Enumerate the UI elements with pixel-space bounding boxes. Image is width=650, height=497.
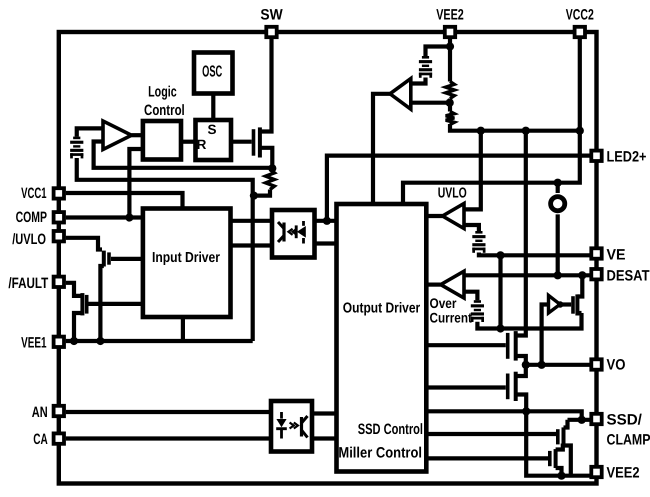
wire opto2 to output driver (bottom) bbox=[312, 436, 337, 440]
svg-text:Miller Control: Miller Control bbox=[338, 445, 422, 462]
wire VCC2 rail down bbox=[403, 39, 580, 204]
opto-coupler OC2 internals bbox=[276, 412, 307, 439]
svg-text:VCC1: VCC1 bbox=[21, 185, 46, 202]
svg-text:LED2+: LED2+ bbox=[607, 149, 647, 166]
wire Q2 gate lead bbox=[88, 302, 142, 306]
wire M3 source down bbox=[564, 446, 571, 476]
pin /UVLO bbox=[54, 231, 64, 241]
transistor M1 (pull-up) bbox=[508, 331, 516, 361]
wire VEE1 rail bbox=[66, 339, 253, 343]
resistor R2 upper divider bbox=[446, 82, 455, 99]
transistor M4 (Miller clamp) bbox=[550, 449, 556, 468]
wire M5 source step bbox=[577, 311, 581, 315]
wire U6 output to Logic Control bbox=[132, 133, 143, 137]
svg-text:SSD Control: SSD Control bbox=[358, 421, 423, 438]
wire M1 gate lead bbox=[426, 343, 506, 347]
wire M3 gate lead (SSD control) bbox=[426, 432, 556, 436]
wire CA to opto2 bbox=[66, 436, 271, 440]
svg-text:COMP: COMP bbox=[16, 209, 47, 226]
wire VCC1 to Input Driver bbox=[66, 193, 183, 209]
pin LED2+ bbox=[591, 151, 601, 161]
wire M2 drain from VO node bbox=[516, 365, 526, 376]
block OSC bbox=[194, 53, 233, 94]
resistor R3 lower divider bbox=[446, 112, 455, 125]
wire Z3 bottom to VE line bbox=[479, 253, 590, 256]
pin SW bbox=[266, 27, 276, 37]
wire UVLO sense from VCC2 line bbox=[464, 131, 481, 210]
pin CA bbox=[54, 433, 64, 443]
buffer U5 (DESAT clamp driver) bbox=[549, 295, 561, 313]
transistor Q1 (/UVLO open drain) bbox=[104, 251, 109, 267]
wire Z4 bottom / clamp ref line bbox=[477, 313, 581, 329]
wire over-current output to Output Driver bbox=[426, 283, 440, 287]
svg-text:SSD/: SSD/ bbox=[607, 412, 643, 429]
wire opto1 to output driver (bottom) bbox=[315, 241, 337, 245]
pin VEE1 bbox=[54, 337, 64, 347]
svg-text:Control: Control bbox=[144, 102, 185, 119]
comparator U3 UVLO (triangle pointing left) bbox=[443, 204, 465, 229]
svg-text:Output Driver: Output Driver bbox=[343, 300, 421, 316]
zener stack Z2 (VEE2 reference) bbox=[419, 56, 432, 78]
junction VCC2 line at UVLO branch bbox=[477, 127, 485, 135]
pin SSD/CLAMP bbox=[591, 414, 601, 424]
wire U6 lower input from switch sense bbox=[94, 142, 273, 168]
wire UVLO lower input to zener Z3 bbox=[464, 225, 479, 231]
svg-text:Input Driver: Input Driver bbox=[152, 250, 220, 266]
wire Q2 source down bbox=[74, 313, 82, 341]
IC package border bbox=[59, 32, 597, 484]
capacitor/zener C1 (soft start ref) bbox=[70, 137, 83, 159]
pin /FAULT bbox=[54, 277, 64, 287]
junction VE line bbox=[496, 251, 504, 259]
wire /FAULT pin to Q2 drain bbox=[66, 283, 81, 296]
wire input driver to opto1 cathode bbox=[231, 243, 273, 247]
wire COMP feedback up to Logic Control bbox=[129, 149, 143, 218]
transistor M6 (flyback switch) bbox=[254, 127, 260, 157]
junction VCC2 line at totem branch bbox=[522, 127, 530, 135]
svg-text:/FAULT: /FAULT bbox=[8, 275, 48, 292]
junction VO at totem mid bbox=[522, 361, 530, 369]
svg-text:OSC: OSC bbox=[202, 64, 222, 81]
wire opto1 to output driver (top) bbox=[315, 219, 337, 223]
wire Input Driver ground leg bbox=[181, 317, 185, 341]
wire VE branch down bbox=[498, 255, 502, 328]
wire Q1 source down bbox=[100, 266, 103, 341]
wire M5 drain to DESAT bbox=[577, 275, 582, 296]
transistor M5 (DESAT clamp) bbox=[573, 294, 577, 315]
transistor Q2 (/FAULT open drain) bbox=[82, 293, 86, 315]
junction COMP node bbox=[125, 213, 133, 221]
current source I1 (circle) bbox=[551, 197, 565, 211]
junction VEE1 at Q1 source bbox=[96, 337, 104, 345]
wire reg comparator output to Output Driver bbox=[373, 94, 390, 204]
comparator U6 (flyback PWM, triangle pointing right) bbox=[103, 121, 132, 150]
pin AN bbox=[54, 406, 64, 416]
wire Logic Control to latch R bbox=[181, 140, 196, 144]
wire SSD pin feed bbox=[568, 418, 590, 422]
zener stack Z3 (UVLO ref) bbox=[472, 231, 485, 253]
wire divider tap segment bbox=[448, 99, 452, 112]
junction switch sense node bbox=[268, 164, 276, 172]
zener stack Z4 (OC ref) bbox=[471, 300, 484, 322]
wire /UVLO pin to T1 drain bbox=[66, 238, 102, 250]
wire VEE2 to zener stack Z2 bbox=[426, 47, 451, 57]
svg-text:Logic: Logic bbox=[148, 84, 177, 101]
transistor M3 (SSD) bbox=[558, 427, 564, 446]
wire M4 source down bbox=[556, 468, 562, 476]
junction DESAT at clamp fet bbox=[578, 271, 586, 279]
wire SW pin to flyback MOSFET drain bbox=[260, 39, 272, 132]
svg-text:VCC2: VCC2 bbox=[566, 6, 594, 23]
wire buffer input from VO sense bbox=[542, 305, 549, 365]
svg-text:CLAMP: CLAMP bbox=[607, 432, 650, 449]
svg-text:VEE2: VEE2 bbox=[607, 465, 640, 482]
svg-text:VEE2: VEE2 bbox=[436, 6, 464, 23]
wire Z2 bottom to regulator comparator upper input bbox=[411, 78, 426, 84]
wire UVLO output to Output Driver bbox=[426, 214, 442, 218]
wire VO line bbox=[526, 363, 590, 367]
wire VEE2 pin down to divider bbox=[448, 39, 452, 82]
wire M2 gate lead bbox=[426, 385, 506, 389]
wire buffer output to M5 gate bbox=[560, 302, 571, 306]
wire clamp line down to VEE2 bbox=[526, 411, 589, 475]
transistor M2 (pull-down) bbox=[508, 372, 516, 401]
wire R1 top stub bbox=[270, 168, 272, 170]
junction VEE2 line at M4 source bbox=[557, 472, 565, 480]
wire M2 source down bbox=[516, 395, 527, 412]
svg-text:VEE1: VEE1 bbox=[21, 334, 46, 351]
junction current source feed bbox=[554, 179, 562, 187]
svg-text:DESAT: DESAT bbox=[607, 267, 650, 284]
pin VEE2 (bottom) bbox=[591, 467, 601, 477]
junction VCC2 line at VCC2 rail bbox=[576, 127, 584, 135]
pin DESAT bbox=[591, 269, 601, 279]
wire feedback down to VEE1 rail bbox=[251, 196, 255, 341]
block Input Driver bbox=[143, 209, 231, 318]
junction DESAT at current source bbox=[554, 271, 562, 279]
wire OSC to latch S input bbox=[211, 94, 215, 121]
block SR latch U7 bbox=[196, 120, 232, 160]
wire AN to opto2 bbox=[66, 410, 271, 414]
svg-text:VO: VO bbox=[607, 357, 626, 374]
wire M4 gate lead (Miller control) bbox=[426, 456, 548, 460]
pin VCC2 bbox=[575, 27, 585, 37]
wire R3 bottom to VCC2 node line bbox=[450, 124, 580, 131]
wire M6 source down bbox=[260, 148, 272, 169]
wire comparator upper input via C1 bbox=[77, 128, 103, 136]
comparator U4 over-current (triangle pointing left) bbox=[441, 271, 464, 298]
svg-text:UVLO: UVLO bbox=[438, 186, 467, 202]
opto-coupler OC1 internals bbox=[278, 221, 306, 244]
wire C1 bottom to VEE1 net bbox=[77, 158, 253, 196]
block Logic Control bbox=[143, 121, 181, 160]
wire current source top bbox=[556, 183, 560, 193]
pin VCC1 bbox=[54, 188, 64, 198]
opto-coupler OC2 box bbox=[271, 401, 312, 452]
junction VO at sense branch bbox=[538, 361, 546, 369]
svg-text:R: R bbox=[197, 137, 207, 152]
resistor R1 (sense) bbox=[266, 170, 275, 190]
junction VEE2 rail / zener branch bbox=[446, 42, 454, 50]
wire input driver to opto1 anode bbox=[231, 219, 273, 223]
junction VEE1 feedback node bbox=[250, 192, 258, 200]
wire OC lower input to zener Z4 bbox=[464, 292, 477, 301]
svg-text:SW: SW bbox=[260, 6, 283, 23]
svg-text:Current: Current bbox=[430, 309, 473, 325]
svg-text:AN: AN bbox=[32, 404, 48, 421]
wire Q1 gate lead bbox=[111, 257, 143, 261]
pin VO bbox=[591, 359, 601, 369]
pin COMP bbox=[54, 212, 64, 222]
wire M3 drain up bbox=[564, 420, 568, 428]
svg-text:VE: VE bbox=[607, 247, 626, 264]
svg-text:/UVLO: /UVLO bbox=[12, 231, 46, 248]
junction clamp ref line bbox=[496, 324, 504, 332]
wire VCC2 to totem top bbox=[516, 131, 526, 336]
wire reg comparator lower input from tap bbox=[411, 101, 450, 105]
junction divider tap bbox=[446, 99, 454, 107]
junction LED2+ feed at opto1 bbox=[323, 217, 331, 225]
pin VE bbox=[591, 248, 601, 258]
wire M4 drain up bbox=[556, 444, 563, 450]
junction M2 source at clamp line bbox=[522, 407, 530, 415]
pin VEE2 (top) bbox=[445, 27, 455, 37]
wire SSD clamp top line bbox=[426, 411, 581, 420]
opto-coupler OC1 box bbox=[272, 210, 315, 258]
junction SSD pin node bbox=[578, 416, 586, 424]
block Output Driver bbox=[337, 204, 427, 472]
junction buffer output bbox=[557, 301, 563, 307]
comparator U2 (VEE2 regulator) bbox=[390, 79, 411, 110]
wire R1 bottom to VEE1 node bbox=[254, 190, 270, 196]
wire COMP to Input Driver bbox=[66, 215, 143, 219]
wire latch to M6 gate bbox=[231, 140, 252, 144]
svg-text:CA: CA bbox=[33, 431, 48, 448]
wire current source bottom to DESAT line bbox=[556, 214, 560, 275]
svg-text:S: S bbox=[207, 122, 216, 137]
wire LED2+ net bbox=[327, 156, 590, 221]
wire opto2 to output driver (top) bbox=[312, 411, 337, 415]
wire M1 source to VO node bbox=[516, 356, 526, 365]
junction VEE1 at Q2 source bbox=[70, 337, 78, 345]
wire DESAT line bbox=[464, 273, 590, 277]
